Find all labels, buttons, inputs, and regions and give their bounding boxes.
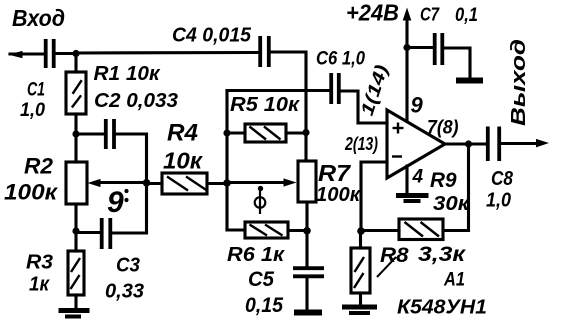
- svg-text:R8: R8: [380, 244, 409, 267]
- svg-text:С3: С3: [116, 255, 140, 277]
- svg-text:R2: R2: [24, 154, 54, 179]
- svg-text:R9: R9: [430, 169, 457, 192]
- svg-text:9: 9: [107, 186, 124, 219]
- svg-text:+24В: +24В: [346, 0, 399, 26]
- svg-text:R4: R4: [167, 120, 198, 147]
- svg-text:0,1: 0,1: [455, 5, 478, 26]
- svg-text:9: 9: [411, 93, 424, 118]
- svg-text:R6 1к: R6 1к: [227, 244, 285, 266]
- svg-text:10к: 10к: [163, 148, 203, 174]
- svg-text:R1 10к: R1 10к: [94, 63, 161, 85]
- svg-text:0,33: 0,33: [105, 281, 144, 303]
- svg-text:А1: А1: [443, 270, 465, 291]
- svg-text:2(13): 2(13): [344, 134, 378, 154]
- svg-text:0,15: 0,15: [245, 294, 283, 317]
- svg-text:С8: С8: [491, 168, 514, 190]
- svg-text:3,3к: 3,3к: [418, 243, 467, 266]
- svg-text:1к: 1к: [29, 274, 50, 296]
- svg-text:R5 10к: R5 10к: [230, 94, 300, 116]
- svg-text:С7: С7: [420, 5, 440, 25]
- svg-text:1,0: 1,0: [486, 190, 511, 212]
- svg-text:4: 4: [412, 167, 424, 188]
- svg-text:1,0: 1,0: [20, 100, 45, 121]
- svg-text:R7: R7: [318, 160, 351, 186]
- svg-text:С4 0,015: С4 0,015: [172, 25, 252, 47]
- svg-text:R3: R3: [26, 252, 53, 274]
- svg-text:С6 1,0: С6 1,0: [316, 49, 365, 70]
- svg-text:100к: 100к: [4, 180, 59, 205]
- svg-text:К548УН1: К548УН1: [397, 297, 487, 319]
- svg-text:Выход: Выход: [508, 39, 530, 126]
- svg-text:С1: С1: [27, 80, 45, 101]
- svg-text:Вход: Вход: [12, 5, 65, 31]
- svg-text:7(8): 7(8): [427, 118, 459, 139]
- svg-text:30к: 30к: [433, 193, 470, 215]
- svg-text:100к: 100к: [316, 184, 361, 206]
- svg-text:С5: С5: [248, 268, 274, 291]
- svg-text:С2 0,033: С2 0,033: [94, 90, 178, 112]
